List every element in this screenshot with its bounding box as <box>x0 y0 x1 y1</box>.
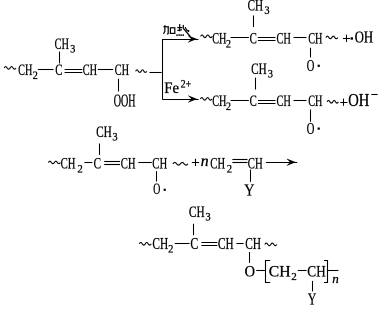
wavy bond chain right end (row5) <box>265 243 277 246</box>
svg-text:2: 2 <box>168 244 173 256</box>
svg-text:CH: CH <box>152 234 168 253</box>
svg-text:CH: CH <box>218 234 234 253</box>
wavy bond chain left end (row5) <box>139 242 151 245</box>
single bond CH2-C (row4) <box>84 162 92 164</box>
wavy bond chain left end (row2) <box>201 35 213 38</box>
svg-text:C: C <box>55 62 62 79</box>
right polymer bracket <box>324 261 328 283</box>
svg-text:CH: CH <box>55 36 69 53</box>
reaction arrow (row4) <box>266 162 291 164</box>
bond C-CH3 vertical (row1) <box>59 52 61 64</box>
radical dot of O (row2) <box>318 65 320 67</box>
svg-text:3: 3 <box>112 131 118 143</box>
radical dot of .OH <box>351 37 353 39</box>
radical dot of O (row3) <box>318 128 320 130</box>
svg-text:CH: CH <box>18 62 32 79</box>
svg-text:3: 3 <box>268 68 274 80</box>
svg-text:CH: CH <box>189 204 205 221</box>
monomer double bond CH2=CH <box>232 159 247 161</box>
plus sign (row3) <box>340 102 347 104</box>
bond CH-O vertical (row2) <box>310 48 312 58</box>
arrow to product 1 heating <box>162 39 192 41</box>
svg-text:n: n <box>332 271 339 286</box>
bond CH-O vertical (row5) <box>249 252 251 263</box>
single bond CH2-C (row1) <box>38 69 54 71</box>
svg-text:CH: CH <box>212 93 226 110</box>
svg-text:CH: CH <box>269 263 291 280</box>
svg-text:CH: CH <box>61 155 76 172</box>
double bond C=CH (row3) <box>258 100 276 102</box>
svg-text:CH: CH <box>248 0 264 15</box>
svg-text:CH: CH <box>96 124 112 141</box>
svg-text:C: C <box>250 93 257 110</box>
svg-text:OH: OH <box>355 28 373 47</box>
bond to branch point <box>150 72 162 74</box>
single bond CH2-C (row2) <box>231 37 249 39</box>
bond C-CH3 vertical (row2) <box>253 16 255 28</box>
svg-text:CH: CH <box>121 155 136 172</box>
plus sign (row2) <box>343 38 350 40</box>
svg-text:CH: CH <box>308 93 322 110</box>
bond C-CH3 vertical (row4) <box>99 144 101 155</box>
svg-text:CH: CH <box>245 234 261 253</box>
svg-text:O: O <box>307 119 315 138</box>
arrow to product 2 Fe2+ <box>162 99 192 101</box>
single bond CH-CH (row1) <box>98 69 113 71</box>
wavy bond chain right end (row3) <box>327 100 338 103</box>
left polymer bracket <box>266 261 271 283</box>
plus sign (row4) <box>192 162 199 164</box>
single bond CH2-C (row5) <box>175 243 190 245</box>
svg-text:CH: CH <box>210 155 225 172</box>
svg-text:2: 2 <box>77 164 82 176</box>
svg-text:2: 2 <box>226 39 231 51</box>
svg-text:Fe: Fe <box>164 80 179 97</box>
svg-text:CH: CH <box>115 62 129 79</box>
bond CH-Y vertical (bracket) <box>312 281 314 292</box>
bond C-CH3 vertical (row3) <box>255 78 257 90</box>
double bond C=CH (row4) <box>104 161 120 163</box>
single bond CH-CH (row4) <box>138 162 152 164</box>
svg-text:CH: CH <box>277 93 291 110</box>
svg-text:2: 2 <box>227 164 232 176</box>
svg-text:OH: OH <box>348 90 369 110</box>
svg-text:2: 2 <box>33 70 38 82</box>
svg-text:CH: CH <box>152 155 167 172</box>
bond O-bracket <box>256 270 265 272</box>
single bond CH-CH (row3) <box>294 100 307 102</box>
bond CH-Y vertical (monomer) <box>250 170 252 182</box>
svg-text:CH: CH <box>212 30 226 47</box>
bond CH-O vertical (row3) <box>310 110 312 122</box>
superscript minus of OH- <box>371 94 377 96</box>
svg-text:O: O <box>307 56 315 75</box>
svg-text:Y: Y <box>244 180 254 199</box>
svg-text:OOH: OOH <box>114 90 136 110</box>
double bond C=CH (row5) <box>201 242 217 244</box>
bracket bond CH2-CH <box>298 270 307 272</box>
wavy bond chain right end (row4) <box>173 162 188 165</box>
single bond CH-CH (row5) <box>236 243 243 245</box>
chain continuation dash after bracket <box>328 270 339 272</box>
svg-text:C: C <box>250 30 257 47</box>
double bond C=CH (row1) <box>65 69 83 71</box>
svg-text:O: O <box>153 181 160 198</box>
wavy bond chain left end (row1) <box>4 67 16 70</box>
svg-text:C: C <box>190 234 198 253</box>
svg-text:3: 3 <box>70 43 76 55</box>
svg-text:CH: CH <box>251 61 267 78</box>
single bond CH-CH (row2) <box>294 37 307 39</box>
bond CH-O vertical (row4) <box>156 171 158 181</box>
svg-text:Y: Y <box>308 289 316 308</box>
svg-text:CH: CH <box>277 30 291 47</box>
svg-text:CH: CH <box>83 62 97 79</box>
svg-text:2+: 2+ <box>181 79 192 91</box>
svg-text:2: 2 <box>291 271 297 283</box>
wavy bond chain left end (row4) <box>48 161 60 164</box>
svg-text:O: O <box>245 263 255 280</box>
svg-text:C: C <box>94 155 102 172</box>
svg-text:2: 2 <box>226 101 231 113</box>
svg-text:3: 3 <box>264 5 270 17</box>
single bond CH2-C (row3) <box>231 100 249 102</box>
svg-text:CH: CH <box>308 30 322 47</box>
bond CH-OOH vertical <box>118 79 120 92</box>
svg-text:n: n <box>201 153 209 170</box>
wavy bond chain right end (row2) <box>326 36 338 39</box>
wavy bond chain right end (row1) <box>136 70 147 73</box>
wavy bond chain left end (row3) <box>200 98 212 101</box>
svg-text:CH: CH <box>307 263 326 280</box>
radical dot of O (row4) <box>164 189 166 191</box>
double bond C=CH (row2) <box>258 37 276 39</box>
bond C-CH3 vertical (row5) <box>193 224 195 235</box>
svg-text:3: 3 <box>205 211 211 223</box>
branch vertical line <box>162 39 164 99</box>
label jiare heating chinese <box>164 25 165 34</box>
